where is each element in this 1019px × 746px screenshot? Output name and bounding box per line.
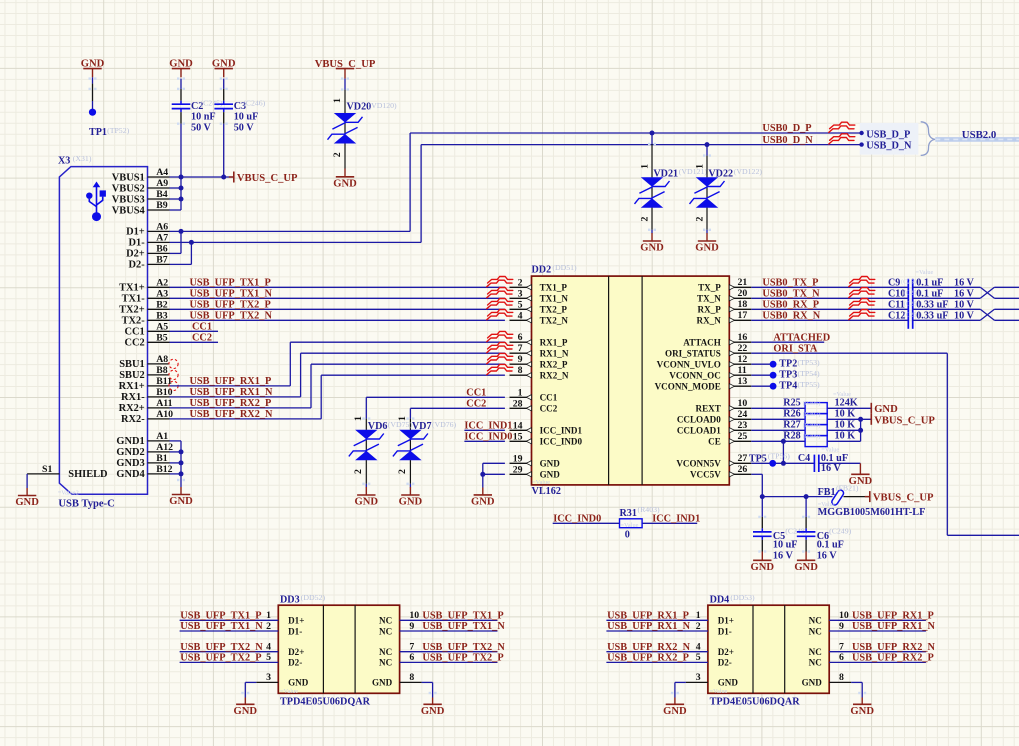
svg-text:GND: GND — [399, 497, 423, 508]
svg-text:5: 5 — [696, 652, 701, 663]
svg-text:D1+: D1+ — [718, 616, 734, 626]
svg-text:A8: A8 — [156, 354, 168, 365]
svg-text:USB_UFP_TX1_P: USB_UFP_TX1_P — [422, 611, 503, 622]
svg-text:VBUS1: VBUS1 — [112, 172, 145, 183]
svg-text:TX2_N: TX2_N — [540, 316, 569, 326]
svg-text:TX2+: TX2+ — [119, 305, 145, 316]
svg-text:ATTACHED: ATTACHED — [773, 332, 830, 343]
svg-text:USB2.0: USB2.0 — [962, 129, 997, 141]
svg-text:X3: X3 — [58, 155, 70, 166]
svg-text:9: 9 — [518, 354, 523, 365]
svg-text:1: 1 — [397, 416, 408, 421]
svg-text:5: 5 — [518, 299, 523, 310]
svg-text:10: 10 — [839, 610, 849, 621]
svg-text:GND: GND — [333, 178, 357, 189]
svg-text:1: 1 — [266, 610, 271, 621]
svg-text:ORI_STA: ORI_STA — [773, 343, 817, 354]
svg-text:8: 8 — [839, 672, 844, 683]
svg-text:TX_N: TX_N — [697, 294, 721, 304]
svg-text:VD20: VD20 — [347, 101, 372, 112]
svg-text:USB_UFP_RX2_P: USB_UFP_RX2_P — [190, 398, 272, 409]
svg-text:RX_N: RX_N — [697, 316, 722, 326]
svg-text:ICC_IND0: ICC_IND0 — [464, 432, 512, 443]
svg-text:S1: S1 — [42, 464, 52, 475]
svg-text:6: 6 — [409, 652, 414, 663]
svg-text:USB_UFP_TX1_P: USB_UFP_TX1_P — [180, 611, 261, 622]
svg-text:3: 3 — [696, 672, 701, 683]
svg-text:6: 6 — [839, 652, 844, 663]
svg-text:10 K: 10 K — [835, 419, 856, 430]
svg-text:GND: GND — [874, 404, 898, 415]
svg-text:D1+: D1+ — [126, 227, 145, 238]
svg-text:USB0_TX_N: USB0_TX_N — [762, 289, 820, 300]
svg-text:GND: GND — [663, 706, 687, 717]
svg-text:(DD53): (DD53) — [730, 593, 755, 602]
svg-text:(R309): (R309) — [803, 433, 821, 440]
svg-text:RX2-: RX2- — [121, 414, 145, 425]
svg-text:3: 3 — [266, 672, 271, 683]
svg-text:MGGB1005M601HT-LF: MGGB1005M601HT-LF — [818, 507, 926, 518]
svg-text:USB_UFP_TX1_N: USB_UFP_TX1_N — [180, 621, 263, 632]
svg-text:CC2: CC2 — [540, 404, 558, 414]
svg-text:NC: NC — [809, 658, 822, 668]
svg-text:USB_UFP_TX2_P: USB_UFP_TX2_P — [190, 300, 271, 311]
svg-text:USB_UFP_RX2_P: USB_UFP_RX2_P — [607, 653, 689, 664]
svg-text:RX1-: RX1- — [121, 392, 145, 403]
svg-text:NC: NC — [379, 616, 392, 626]
svg-text:=Value: =Value — [821, 447, 839, 454]
svg-text:9: 9 — [409, 621, 414, 632]
svg-text:7: 7 — [839, 642, 844, 653]
svg-text:USB_UFP_TX1_P: USB_UFP_TX1_P — [190, 278, 271, 289]
svg-text:GND: GND — [751, 562, 775, 573]
svg-text:GND: GND — [234, 706, 258, 717]
svg-text:ICC_IND1: ICC_IND1 — [652, 513, 700, 524]
svg-text:SBU1: SBU1 — [119, 359, 144, 370]
svg-text:(VD120): (VD120) — [369, 101, 398, 110]
svg-text:R27: R27 — [783, 419, 800, 430]
svg-text:GND: GND — [695, 243, 719, 254]
svg-text:RX2+: RX2+ — [119, 403, 145, 414]
svg-text:1: 1 — [332, 98, 343, 103]
svg-text:USB_UFP_TX2_N: USB_UFP_TX2_N — [190, 311, 273, 322]
svg-text:10 uF: 10 uF — [234, 111, 259, 122]
svg-text:1: 1 — [353, 416, 364, 421]
svg-text:C9: C9 — [888, 278, 900, 289]
svg-text:NC: NC — [809, 626, 822, 636]
svg-text:16 V: 16 V — [773, 550, 794, 561]
svg-text:A2: A2 — [156, 278, 168, 289]
svg-text:VBUS_C_UP: VBUS_C_UP — [873, 493, 934, 504]
svg-text:GND: GND — [540, 459, 561, 469]
svg-text:13: 13 — [738, 376, 748, 387]
svg-text:A1: A1 — [156, 431, 168, 442]
svg-text:TP1: TP1 — [89, 127, 107, 138]
svg-text:CCLOAD0: CCLOAD0 — [677, 415, 721, 425]
svg-text:TP5: TP5 — [749, 453, 767, 464]
svg-text:D1-: D1- — [288, 626, 302, 636]
svg-text:TPD4E05U06DQAR: TPD4E05U06DQAR — [280, 696, 371, 707]
svg-text:25: 25 — [738, 431, 748, 442]
svg-text:GND: GND — [540, 470, 561, 480]
svg-text:(VD76): (VD76) — [432, 420, 457, 429]
svg-text:=Value: =Value — [280, 688, 298, 695]
svg-text:CC1: CC1 — [192, 322, 212, 333]
svg-text:ICC_IND1: ICC_IND1 — [464, 421, 512, 432]
svg-text:(VD122): (VD122) — [734, 167, 763, 176]
svg-text:22: 22 — [738, 343, 748, 354]
svg-text:ICC_IND1: ICC_IND1 — [540, 426, 583, 436]
svg-text:GND3: GND3 — [116, 458, 144, 469]
svg-text:A9: A9 — [156, 178, 168, 189]
svg-text:C11: C11 — [888, 300, 905, 311]
svg-text:(R403): (R403) — [638, 505, 660, 514]
svg-text:4: 4 — [696, 642, 701, 653]
svg-text:1: 1 — [696, 610, 701, 621]
svg-text:2: 2 — [696, 621, 701, 632]
svg-text:CC2: CC2 — [466, 399, 486, 410]
svg-text:GND: GND — [169, 496, 193, 507]
svg-text:(R307): (R307) — [803, 411, 821, 418]
svg-text:D2+: D2+ — [126, 249, 145, 260]
svg-text:USB_UFP_RX1_P: USB_UFP_RX1_P — [852, 611, 934, 622]
svg-text:(C249): (C249) — [829, 526, 851, 535]
svg-text:10 nF: 10 nF — [191, 111, 216, 122]
svg-text:DD2: DD2 — [532, 264, 552, 275]
svg-text:USB_UFP_RX2_P: USB_UFP_RX2_P — [852, 653, 934, 664]
svg-text:USB_UFP_RX1_P: USB_UFP_RX1_P — [190, 376, 272, 387]
svg-text:27: 27 — [738, 453, 748, 464]
svg-text:VCC5V: VCC5V — [690, 470, 721, 480]
svg-text:1: 1 — [518, 387, 523, 398]
svg-text:B3: B3 — [156, 311, 168, 322]
svg-text:8: 8 — [409, 672, 414, 683]
svg-text:18: 18 — [738, 299, 748, 310]
svg-text:B7: B7 — [156, 255, 168, 266]
svg-text:A6: A6 — [156, 222, 168, 233]
svg-text:0: 0 — [625, 529, 630, 540]
svg-text:D2-: D2- — [288, 658, 302, 668]
svg-text:USB_UFP_RX2_N: USB_UFP_RX2_N — [607, 642, 691, 653]
svg-text:TP3: TP3 — [779, 370, 797, 381]
svg-text:B5: B5 — [156, 333, 168, 344]
svg-text:TPD4E05U06DQAR: TPD4E05U06DQAR — [710, 696, 801, 707]
svg-text:D2-: D2- — [129, 260, 146, 271]
svg-text:USB_D_P: USB_D_P — [866, 129, 910, 140]
svg-text:VBUS_C_UP: VBUS_C_UP — [237, 173, 298, 184]
svg-text:ICC_IND0: ICC_IND0 — [540, 437, 583, 447]
svg-text:10 K: 10 K — [835, 430, 856, 441]
svg-text:C12: C12 — [888, 311, 905, 322]
svg-text:GND: GND — [718, 678, 739, 688]
svg-text:1: 1 — [694, 164, 705, 169]
svg-text:5: 5 — [266, 652, 271, 663]
svg-text:VBUS4: VBUS4 — [112, 205, 145, 216]
svg-text:RX2_N: RX2_N — [540, 371, 569, 381]
svg-text:DD4: DD4 — [710, 594, 730, 605]
svg-text:SHIELD: SHIELD — [68, 469, 107, 480]
svg-text:B6: B6 — [156, 244, 168, 255]
svg-text:TX1+: TX1+ — [119, 283, 145, 294]
svg-text:9: 9 — [839, 621, 844, 632]
svg-text:(C248): (C248) — [785, 526, 807, 535]
svg-text:TP4: TP4 — [779, 381, 797, 392]
svg-text:=Value: =Value — [710, 688, 728, 695]
svg-text:TX1-: TX1- — [122, 294, 146, 305]
svg-text:VBUS2: VBUS2 — [112, 183, 145, 194]
svg-text:USB_UFP_RX1_N: USB_UFP_RX1_N — [852, 621, 936, 632]
svg-text:ATTACH: ATTACH — [683, 338, 721, 348]
svg-text:USB_UFP_TX2_N: USB_UFP_TX2_N — [422, 642, 505, 653]
svg-text:GND2: GND2 — [116, 447, 144, 458]
svg-text:11: 11 — [738, 365, 747, 376]
svg-text:CC1: CC1 — [124, 327, 144, 338]
svg-text:VBUS3: VBUS3 — [112, 194, 145, 205]
svg-text:CC2: CC2 — [192, 333, 212, 344]
svg-text:(TP53): (TP53) — [798, 358, 820, 367]
svg-text:TX1_P: TX1_P — [540, 283, 568, 293]
svg-text:=Value: =Value — [532, 479, 550, 486]
svg-text:VCONN_OC: VCONN_OC — [669, 371, 721, 381]
svg-text:USB_UFP_RX1_P: USB_UFP_RX1_P — [607, 611, 689, 622]
svg-text:USB0_RX_P: USB0_RX_P — [762, 300, 819, 311]
svg-text:(TP55): (TP55) — [798, 380, 820, 389]
svg-text:RX2_P: RX2_P — [540, 360, 568, 370]
svg-text:2: 2 — [397, 469, 408, 474]
svg-text:GND: GND — [471, 497, 495, 508]
svg-text:GND: GND — [640, 243, 664, 254]
svg-text:2: 2 — [266, 621, 271, 632]
svg-text:VBUS_C_UP: VBUS_C_UP — [874, 416, 935, 427]
svg-text:GND: GND — [15, 497, 39, 508]
svg-text:26: 26 — [738, 464, 748, 475]
svg-text:(TP52): (TP52) — [107, 126, 129, 135]
svg-text:USB_UFP_RX1_N: USB_UFP_RX1_N — [607, 621, 691, 632]
svg-text:23: 23 — [738, 420, 748, 431]
svg-text:RX1_P: RX1_P — [540, 338, 568, 348]
svg-text:USB_D_N: USB_D_N — [866, 141, 912, 152]
svg-text:(C245): (C245) — [201, 99, 223, 108]
svg-text:D2-: D2- — [718, 658, 732, 668]
svg-text:=Value: =Value — [621, 522, 639, 529]
svg-text:1: 1 — [639, 164, 650, 169]
svg-text:TX1_N: TX1_N — [540, 294, 569, 304]
svg-text:(TP54): (TP54) — [798, 369, 820, 378]
svg-text:28: 28 — [513, 398, 523, 409]
svg-text:USB Type-C: USB Type-C — [58, 498, 114, 509]
svg-text:D1-: D1- — [129, 238, 146, 249]
svg-text:(X31): (X31) — [73, 154, 92, 163]
svg-text:0.1 uF: 0.1 uF — [817, 539, 844, 550]
svg-text:VCONN_MODE: VCONN_MODE — [655, 382, 721, 392]
svg-text:124K: 124K — [835, 397, 858, 408]
svg-text:10 uF: 10 uF — [773, 539, 798, 550]
svg-text:B9: B9 — [156, 200, 168, 211]
svg-text:TX_P: TX_P — [698, 283, 721, 293]
svg-text:USB_UFP_TX1_N: USB_UFP_TX1_N — [422, 621, 505, 632]
svg-text:6: 6 — [518, 332, 523, 343]
svg-text:ICC_IND0: ICC_IND0 — [553, 513, 601, 524]
svg-text:VL162: VL162 — [532, 486, 561, 497]
svg-text:GND: GND — [288, 678, 309, 688]
svg-text:TP2: TP2 — [779, 359, 797, 370]
svg-text:B1: B1 — [156, 453, 168, 464]
svg-text:16: 16 — [738, 332, 748, 343]
svg-text:RX_P: RX_P — [698, 305, 722, 315]
svg-text:B2: B2 — [156, 300, 168, 311]
svg-text:GND: GND — [81, 58, 105, 69]
svg-text:A4: A4 — [156, 167, 168, 178]
svg-text:20: 20 — [738, 288, 748, 299]
svg-text:USB0_RX_N: USB0_RX_N — [762, 311, 820, 322]
svg-text:R25: R25 — [783, 397, 800, 408]
svg-text:B8: B8 — [156, 365, 168, 376]
svg-text:USB_UFP_TX1_N: USB_UFP_TX1_N — [190, 289, 273, 300]
svg-text:R28: R28 — [783, 430, 800, 441]
svg-text:16 V: 16 V — [821, 463, 842, 474]
svg-text:C10: C10 — [888, 289, 905, 300]
svg-text:10: 10 — [409, 610, 419, 621]
svg-text:4: 4 — [518, 310, 523, 321]
svg-text:12: 12 — [738, 354, 748, 365]
svg-text:VCONN5V: VCONN5V — [676, 459, 721, 469]
svg-text:(C246): (C246) — [243, 99, 265, 108]
svg-text:2: 2 — [332, 152, 343, 157]
svg-text:D1-: D1- — [718, 626, 732, 636]
svg-text:A3: A3 — [156, 289, 168, 300]
svg-text:USB_UFP_TX2_N: USB_UFP_TX2_N — [180, 642, 263, 653]
svg-text:USB0_D_P: USB0_D_P — [762, 123, 811, 134]
svg-text:VCONN_UVLO: VCONN_UVLO — [657, 360, 721, 370]
svg-text:17: 17 — [738, 310, 748, 321]
svg-text:USB_UFP_RX2_N: USB_UFP_RX2_N — [190, 409, 274, 420]
svg-text:=Value2: =Value2 — [58, 490, 79, 497]
svg-text:10: 10 — [738, 398, 748, 409]
svg-text:A7: A7 — [156, 233, 168, 244]
svg-text:3: 3 — [518, 288, 523, 299]
svg-text:NC: NC — [379, 626, 392, 636]
svg-text:10 K: 10 K — [835, 408, 856, 419]
svg-text:(DD52): (DD52) — [301, 593, 326, 602]
svg-text:4: 4 — [266, 642, 271, 653]
svg-text:8: 8 — [518, 365, 523, 376]
svg-text:24: 24 — [738, 409, 748, 420]
svg-text:B4: B4 — [156, 189, 168, 200]
svg-text:7: 7 — [518, 343, 523, 354]
svg-text:GND: GND — [372, 678, 393, 688]
svg-text:R26: R26 — [783, 408, 800, 419]
svg-text:21: 21 — [738, 277, 748, 288]
svg-text:USB0_TX_P: USB0_TX_P — [762, 278, 818, 289]
svg-text:CCLOAD1: CCLOAD1 — [677, 426, 721, 436]
svg-text:D2+: D2+ — [288, 647, 304, 657]
svg-text:14: 14 — [513, 420, 523, 431]
svg-text:RX1_N: RX1_N — [540, 349, 569, 359]
svg-text:2: 2 — [518, 277, 523, 288]
svg-text:GND: GND — [850, 706, 874, 717]
svg-text:GND: GND — [794, 562, 818, 573]
svg-text:50 V: 50 V — [191, 123, 212, 134]
svg-text:NC: NC — [809, 616, 822, 626]
svg-text:15: 15 — [513, 431, 523, 442]
svg-text:=Value: =Value — [915, 269, 933, 276]
svg-text:USB_UFP_TX2_P: USB_UFP_TX2_P — [180, 653, 261, 664]
svg-text:TX2-: TX2- — [122, 316, 146, 327]
svg-text:NC: NC — [379, 647, 392, 657]
svg-text:7: 7 — [409, 642, 414, 653]
svg-text:R31: R31 — [620, 508, 637, 519]
svg-text:(TP56): (TP56) — [768, 451, 790, 460]
svg-text:USB0_D_N: USB0_D_N — [762, 135, 813, 146]
svg-text:CC1: CC1 — [466, 388, 486, 399]
svg-text:2: 2 — [639, 216, 650, 221]
svg-text:USB_UFP_RX1_N: USB_UFP_RX1_N — [190, 387, 274, 398]
svg-text:RX1+: RX1+ — [119, 381, 145, 392]
svg-text:50 V: 50 V — [234, 123, 255, 134]
svg-text:ORI_STATUS: ORI_STATUS — [665, 349, 721, 359]
svg-text:19: 19 — [513, 453, 523, 464]
svg-text:A5: A5 — [156, 322, 168, 333]
svg-text:(R308): (R308) — [803, 422, 821, 429]
svg-text:GND: GND — [212, 58, 236, 69]
svg-text:2: 2 — [353, 469, 364, 474]
svg-text:C4: C4 — [798, 453, 810, 464]
svg-text:GND: GND — [421, 706, 445, 717]
svg-text:CE: CE — [708, 437, 721, 447]
svg-text:16 V: 16 V — [817, 550, 838, 561]
svg-text:CC2: CC2 — [124, 338, 144, 349]
svg-text:NC: NC — [379, 658, 392, 668]
svg-text:(DD51): (DD51) — [552, 263, 577, 272]
svg-text:(R306): (R306) — [803, 400, 821, 407]
svg-text:GND1: GND1 — [116, 436, 144, 447]
svg-text:CC1: CC1 — [540, 393, 558, 403]
svg-text:TX2_P: TX2_P — [540, 305, 568, 315]
svg-text:D2+: D2+ — [718, 647, 734, 657]
svg-text:GND: GND — [355, 497, 379, 508]
svg-text:FB1: FB1 — [818, 487, 836, 498]
svg-text:29: 29 — [513, 464, 523, 475]
svg-text:NC: NC — [809, 647, 822, 657]
svg-text:DD3: DD3 — [280, 594, 300, 605]
svg-text:(FB21): (FB21) — [836, 484, 859, 493]
svg-text:USB_UFP_TX2_P: USB_UFP_TX2_P — [422, 653, 503, 664]
svg-text:D1+: D1+ — [288, 616, 304, 626]
svg-text:GND: GND — [169, 58, 193, 69]
svg-text:2: 2 — [694, 216, 705, 221]
svg-text:USB_UFP_RX2_N: USB_UFP_RX2_N — [852, 642, 936, 653]
svg-text:GND: GND — [802, 678, 823, 688]
svg-text:SBU2: SBU2 — [119, 370, 144, 381]
svg-text:GND4: GND4 — [116, 469, 144, 480]
svg-text:REXT: REXT — [696, 404, 721, 414]
